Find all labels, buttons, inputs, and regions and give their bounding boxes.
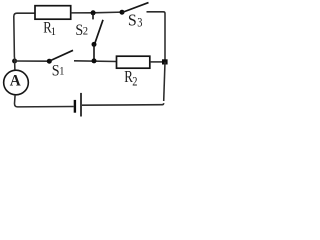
node junction dot middle (S2 bottom) <box>92 58 97 63</box>
wire ammeter to bottom-left corner <box>15 95 74 107</box>
S2 lower stub <box>93 44 95 61</box>
S2 lower contact dot <box>92 42 97 47</box>
switch S1 contact dot <box>47 59 52 64</box>
node junction dot top (S2 tap) <box>91 10 96 15</box>
resistor R2 <box>117 56 150 68</box>
label S1 <box>52 63 65 80</box>
switch S2 blade <box>94 20 103 45</box>
svg-text:1: 1 <box>51 26 56 39</box>
wire left rail junction down to ammeter <box>14 57 16 70</box>
wire R1 to S2 junction <box>71 12 93 14</box>
svg-text:3: 3 <box>137 17 142 30</box>
svg-text:2: 2 <box>132 76 137 89</box>
label S2 <box>75 22 88 39</box>
wire S2 junction to S3 <box>93 11 122 14</box>
wire top-left segment with rounded corner <box>14 13 35 57</box>
battery cell: long plate (positive) <box>80 93 82 117</box>
svg-text:A: A <box>10 72 22 89</box>
wire R2 to right rail <box>150 61 165 63</box>
svg-text:2: 2 <box>83 25 88 38</box>
label S3 <box>128 10 143 30</box>
resistor R1 <box>35 6 71 20</box>
wire S3 right to top-right corner <box>147 12 166 62</box>
middle wire right segment <box>74 60 117 63</box>
label R2 <box>124 67 137 88</box>
switch S1 blade <box>50 50 74 61</box>
battery cell: short plate (negative) <box>74 100 76 113</box>
svg-text:S: S <box>128 10 137 30</box>
node junction dot right rail <box>162 59 168 64</box>
S2 upper stub <box>92 13 94 19</box>
ammeter A1 <box>4 70 29 95</box>
label R1 <box>43 19 56 38</box>
middle wire left segment <box>15 60 50 62</box>
switch S3 <box>120 10 125 15</box>
svg-text:1: 1 <box>59 65 64 78</box>
right rail lower segment <box>164 62 165 101</box>
bottom wire right segment with corner <box>82 103 164 105</box>
left rail middle junction dot <box>12 59 17 64</box>
